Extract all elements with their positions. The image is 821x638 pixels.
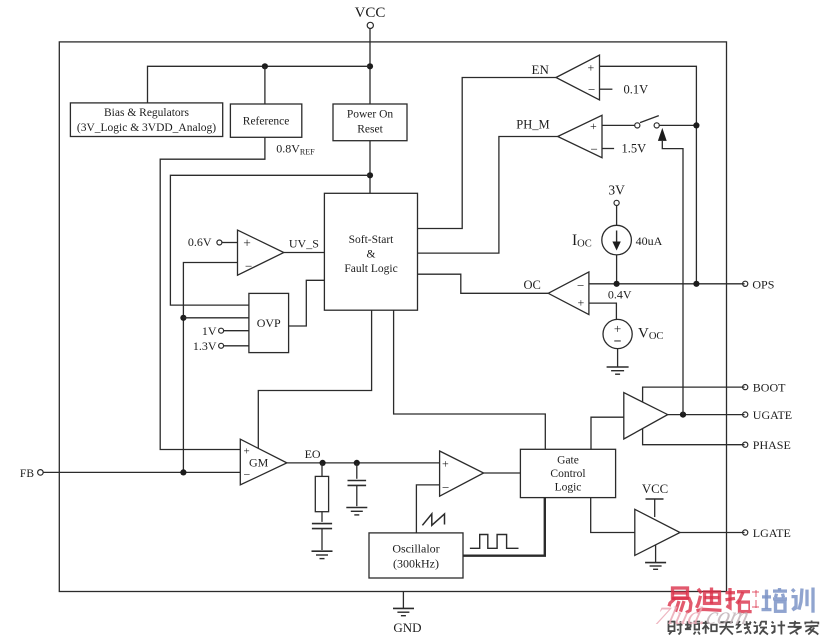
block OVP <box>249 293 289 352</box>
svg-text:GM: GM <box>249 456 269 470</box>
svg-text:Soft-Start: Soft-Start <box>349 234 395 246</box>
wire UV_S output to Soft-Start <box>284 252 325 254</box>
wire OC output to Soft-Start <box>418 274 549 293</box>
ground below EO cap <box>346 508 367 515</box>
wire OVP input2 <box>183 317 249 319</box>
current source IOC 40uA <box>602 225 632 255</box>
wire EN minus stub 0.1V <box>600 88 613 90</box>
wire Soft-Start output2 to GCL top <box>394 310 546 449</box>
svg-text:+: + <box>590 119 597 133</box>
wire UV_S minus to FB line <box>183 263 237 473</box>
block Reference <box>230 104 301 137</box>
driver UGATE buffer <box>624 393 668 439</box>
ground below resistor-cap <box>312 551 333 558</box>
square wave symbol <box>470 535 519 549</box>
wire PWM output to Gate Control Logic <box>484 472 521 474</box>
pin OPS terminal <box>743 277 775 291</box>
wire 0.8VREF from Reference down-left-down to GM+ <box>160 137 265 449</box>
node junction OVP input2 <box>180 315 186 321</box>
svg-text:OC: OC <box>524 278 541 292</box>
wire PH_M plus to switch <box>602 124 635 126</box>
wire VCC bar into LGATE driver <box>646 499 664 517</box>
voltage source VOC <box>603 319 632 349</box>
svg-text:Bias & Regulators: Bias & Regulators <box>104 107 189 119</box>
svg-text:−: − <box>244 468 251 482</box>
svg-text:LGATE: LGATE <box>753 526 791 540</box>
svg-text:OPS: OPS <box>752 277 774 291</box>
node junction POR branch <box>367 172 373 178</box>
amplifier GM <box>240 439 287 485</box>
node junction EN/OPS <box>693 281 699 287</box>
svg-text:−: − <box>442 480 449 495</box>
svg-text:PHASE: PHASE <box>753 438 791 452</box>
svg-text:VCC: VCC <box>642 482 668 496</box>
svg-text:+: + <box>588 60 595 74</box>
wire PH_M output to Soft-Start <box>418 137 558 254</box>
svg-text:OVP: OVP <box>257 316 281 330</box>
wire OPS rail <box>589 283 745 285</box>
svg-text:UV_S: UV_S <box>289 237 319 251</box>
svg-text:VOC: VOC <box>638 326 663 343</box>
comparator PH_M <box>558 115 602 157</box>
node junction EO-C <box>354 460 360 466</box>
wire BOOT rail <box>643 387 745 445</box>
watermark hidden glyph fragment <box>752 590 760 610</box>
IC outline border <box>59 42 726 592</box>
svg-text:Reset: Reset <box>357 124 383 136</box>
svg-text:Gate: Gate <box>557 455 579 467</box>
svg-text:0.4V: 0.4V <box>608 288 632 302</box>
terminal 1.3V <box>193 339 249 353</box>
svg-text:−: − <box>614 335 622 350</box>
svg-text:Control: Control <box>550 468 585 480</box>
pin UGATE terminal <box>743 408 793 422</box>
svg-text:&: & <box>367 249 376 261</box>
driver LGATE buffer <box>635 509 680 555</box>
svg-text:+: + <box>243 236 251 251</box>
wire OC plus to VOC source <box>589 303 617 319</box>
node junction switch/OPS rail <box>693 122 699 128</box>
wire POR branch to OVP input1 <box>170 175 370 305</box>
wire PH_M minus stub 1.5V <box>602 148 614 150</box>
ground of VOC <box>607 349 629 375</box>
switch control arrow from UGATE <box>658 128 683 415</box>
block Bias & Regulators <box>70 103 222 137</box>
node junction EO-R <box>320 460 326 466</box>
terminal 1V <box>202 324 249 338</box>
sawtooth waveform symbol <box>422 514 444 525</box>
wire switch to OPS rail <box>659 124 696 126</box>
resistor on EO <box>315 463 328 522</box>
svg-text:Reference: Reference <box>243 116 290 128</box>
svg-text:−: − <box>591 141 598 156</box>
svg-text:Logic: Logic <box>555 482 582 494</box>
wire GCL to UGATE driver <box>591 417 624 449</box>
svg-text:EN: EN <box>532 62 550 77</box>
wire POR output down to Soft-Start <box>369 141 371 194</box>
ground of LGATE driver <box>645 545 666 569</box>
svg-text:+: + <box>578 296 585 310</box>
svg-text:Oscillalor: Oscillalor <box>392 542 439 556</box>
svg-text:1.3V: 1.3V <box>193 339 217 353</box>
svg-text:1.5V: 1.5V <box>622 142 647 156</box>
svg-text:0.6V: 0.6V <box>188 235 212 249</box>
capacitor below resistor <box>312 524 332 550</box>
svg-text:−: − <box>245 259 252 274</box>
wire LGATE output <box>680 532 745 534</box>
capacitor on EO <box>348 463 367 506</box>
svg-text:IOC: IOC <box>572 232 592 250</box>
svg-text:−: − <box>577 278 584 293</box>
comparator OC <box>548 272 589 315</box>
svg-text:PH_M: PH_M <box>516 118 549 132</box>
svg-text:3V: 3V <box>608 183 625 198</box>
wire OVP output to Soft-Start left <box>289 280 325 326</box>
watermark tagline characters (drawn strokes) <box>669 621 819 635</box>
wire GM output EO <box>287 462 440 464</box>
watermark white box glyph <box>750 588 761 610</box>
svg-text:40uA: 40uA <box>636 234 663 248</box>
terminal 0.6V <box>188 235 238 249</box>
svg-text:Power On: Power On <box>347 109 394 121</box>
svg-text:FB: FB <box>20 468 34 480</box>
svg-text:0.8VREF: 0.8VREF <box>276 142 315 157</box>
svg-text:BOOT: BOOT <box>753 381 786 395</box>
svg-text:GND: GND <box>393 620 421 635</box>
pin 3V terminal <box>608 183 625 206</box>
svg-text:VCC: VCC <box>355 5 386 21</box>
block Power On Reset <box>333 104 407 141</box>
comparator EN <box>556 55 600 100</box>
svg-text:UGATE: UGATE <box>753 408 792 422</box>
wire UGATE output <box>668 414 745 416</box>
pin VCC terminal <box>355 5 386 29</box>
svg-text:+: + <box>442 456 449 470</box>
wire EN plus from OPS rail <box>600 66 697 283</box>
block Soft-Start & Fault Logic <box>324 193 417 310</box>
svg-text:(300kHz): (300kHz) <box>393 557 439 571</box>
wire PWM minus to Oscillator <box>416 485 439 533</box>
svg-text:(3V_Logic & 3VDD_Analog): (3V_Logic & 3VDD_Analog) <box>77 122 216 134</box>
svg-text:1V: 1V <box>202 324 217 338</box>
node junction UGATE/PH_M <box>680 412 686 418</box>
node junction above Reference <box>262 63 268 69</box>
wire 3V to current source <box>616 206 618 226</box>
wire FB to GM minus <box>43 471 240 473</box>
node junction VCC rail <box>367 63 373 69</box>
wire GCL to LGATE driver <box>591 498 635 533</box>
switch contacts <box>635 116 660 128</box>
pin LGATE terminal <box>743 526 791 540</box>
node junction FB/UV_S <box>180 469 186 475</box>
label 0.8VREF <box>276 142 315 157</box>
block Gate Control Logic <box>520 449 615 497</box>
wire Oscillator output to Gate Control Logic <box>463 498 545 556</box>
svg-text:0.1V: 0.1V <box>624 83 649 97</box>
pin FB terminal <box>20 468 43 480</box>
wire current source to OPS rail <box>616 255 618 284</box>
svg-text:EO: EO <box>305 447 321 461</box>
pin GND terminal <box>393 592 414 616</box>
svg-text:−: − <box>588 82 595 97</box>
block Oscillator <box>369 533 463 578</box>
wire top rail to Bias and Reference <box>148 66 371 103</box>
pin BOOT terminal <box>743 381 787 395</box>
watermark cursive overlay <box>653 603 820 631</box>
wire Soft-Start output1 to GM top <box>258 310 371 448</box>
node junction IOC/OPS <box>614 281 620 287</box>
comparator PWM <box>440 451 484 496</box>
pin PHASE terminal <box>743 438 791 452</box>
wire EN output to Soft-Start <box>418 78 557 229</box>
wire Reference top drop <box>264 66 266 104</box>
wire VCC vertical into POR <box>369 28 371 104</box>
svg-text:Fault Logic: Fault Logic <box>344 263 397 275</box>
watermark brand characters (drawn strokes) <box>669 588 751 613</box>
comparator UV_S (0.6V) <box>238 230 284 275</box>
